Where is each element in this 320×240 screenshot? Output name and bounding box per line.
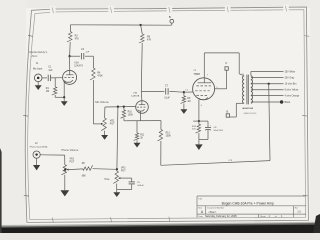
wires T1 secondary taps (251, 72, 284, 103)
title block text Title (198, 198, 203, 201)
resistor R9 (181, 96, 186, 104)
ground below R11 (134, 140, 141, 147)
wire 7868 cathode drop (198, 100, 200, 122)
ground below VR3 (113, 192, 120, 197)
wire R10 drop (123, 107, 125, 110)
svg-text:100K: 100K (128, 114, 134, 116)
wire grid to R1 (54, 78, 56, 87)
label 25V Gray (285, 76, 296, 79)
label V1A 12AX7A (74, 62, 83, 68)
wire R8 top to rail (141, 25, 143, 34)
svg-text:1.0: 1.0 (297, 209, 301, 213)
svg-text:R13: R13 (166, 133, 171, 135)
potentiometer VR1 (61, 165, 66, 175)
wire mix node to VR3 (116, 169, 118, 171)
svg-text:VR2: VR2 (110, 121, 115, 123)
label 8 ohm Yellow (285, 90, 299, 92)
label J2 (35, 142, 38, 145)
resistor R4 (90, 68, 95, 80)
svg-text:C: C (225, 61, 227, 65)
resistor R14 (196, 124, 201, 133)
label R9 1M (187, 98, 191, 103)
svg-text:VR3: VR3 (121, 167, 126, 169)
ground below 7868 cathode (195, 139, 203, 150)
capacitor C7 (166, 88, 168, 94)
ground below V1A cathode (61, 97, 68, 106)
drawing frame double border (25, 7, 308, 222)
svg-text:Attic: Attic (32, 54, 38, 58)
label R10 100K (128, 111, 134, 116)
label Mic Input (33, 68, 43, 71)
svg-text:47K: 47K (75, 38, 80, 41)
label 48-847-090 (242, 107, 253, 110)
label C7 .01uF (164, 85, 170, 100)
svg-text:<Doc>: <Doc> (208, 210, 217, 214)
label R13 100K (166, 133, 172, 138)
wire VR1 wiper to R6 (69, 168, 83, 171)
svg-text:.01uF: .01uF (164, 98, 170, 100)
wire R9 drop (183, 92, 185, 96)
junction dot 7868 grid node (183, 91, 185, 93)
ground below J1 (35, 82, 42, 90)
capacitor C5 (129, 182, 135, 184)
potentiometer VR2 (101, 118, 106, 131)
capacitor C1 (48, 75, 50, 81)
offpage connector B bottom (226, 114, 229, 117)
label R14 270 (192, 126, 197, 131)
wire V1B plate node to C7 (141, 90, 164, 92)
svg-text:V1B: V1B (133, 93, 138, 95)
pin label 1,2 (185, 90, 189, 92)
label J1 (36, 62, 39, 65)
junction dot grid bus to mix line (117, 106, 119, 108)
svg-text:50uF 50V: 50uF 50V (214, 130, 224, 132)
junction dot mix node (116, 168, 118, 170)
label T1 (241, 74, 244, 76)
svg-text:47K: 47K (147, 39, 152, 42)
transformer T1 (242, 75, 252, 105)
svg-text:2K: 2K (140, 137, 143, 139)
svg-text:B: B (226, 110, 228, 114)
ground below J2 (33, 158, 40, 170)
wire J1 to C1 (42, 77, 47, 79)
pentode V2 7868 (193, 78, 215, 100)
wire R2 to plate junction (69, 42, 72, 56)
svg-text:Mic Input: Mic Input (33, 68, 43, 71)
svg-text:4 ohm Orange: 4 ohm Orange (285, 95, 300, 98)
svg-text:Bogen CHB-10A Pre + Power Amp: Bogen CHB-10A Pre + Power Amp (222, 201, 274, 205)
svg-text:Saturday, February 12, 2005: Saturday, February 12, 2005 (205, 215, 237, 218)
label 68K (82, 175, 87, 177)
label Phono Input (RCA) (30, 145, 48, 148)
label C5 .005uF (137, 182, 144, 187)
svg-text:12AX7A: 12AX7A (74, 65, 83, 68)
junction dot 7868 cathode node (198, 120, 200, 122)
wire C2 to R4 branch (85, 55, 93, 57)
arrowhead VR3 wiper (118, 177, 120, 179)
wire VR3 bottom (116, 184, 118, 193)
pin label 7 (207, 75, 209, 77)
label Black (285, 102, 291, 104)
svg-text:Date:: Date: (198, 215, 203, 218)
power connector B (circle) (170, 19, 174, 25)
wire C8 branch (199, 121, 208, 139)
svg-text:Phono Input (RCA): Phono Input (RCA) (30, 145, 48, 148)
resistor R13 (158, 129, 163, 141)
label VR2 POT (110, 121, 115, 126)
wire cathode bus to R13 (160, 121, 162, 130)
svg-text:48-847-090: 48-847-090 (242, 107, 253, 110)
svg-text:1M: 1M (46, 90, 49, 93)
svg-text:12AX7A: 12AX7A (131, 95, 140, 98)
ground below VR2 (101, 135, 108, 140)
capacitor C2 (81, 53, 83, 59)
pin label 9 (216, 87, 218, 89)
label R11 2K (140, 134, 145, 139)
svg-text:100K: 100K (166, 136, 172, 138)
svg-text:16 ohm Brn: 16 ohm Brn (285, 83, 298, 86)
resistor R6 (83, 165, 93, 170)
wire V1B cathode bus (124, 120, 161, 122)
ground below VR1 (60, 190, 69, 196)
junction dot V1A plate node (68, 55, 70, 57)
svg-text:1M: 1M (187, 101, 190, 103)
offpage connector C (225, 67, 228, 70)
svg-text:POT: POT (121, 170, 126, 172)
triode V1A (63, 70, 77, 97)
wire 7868 plate to top (204, 53, 239, 78)
wire C1 to V1A grid (51, 77, 63, 79)
svg-text:Mic Volume: Mic Volume (95, 100, 109, 104)
svg-text:Phono Volume: Phono Volume (61, 148, 78, 152)
wire R10 to cathode bus (123, 118, 125, 121)
label R6 (82, 163, 86, 165)
wire T1 primary bottom to B (230, 103, 245, 117)
jack J1 mic input (34, 74, 42, 82)
label VR3 POT (121, 167, 126, 172)
wire R9 to ground (183, 104, 185, 110)
svg-text:25V Gray: 25V Gray (285, 76, 296, 79)
junction dot black tap (280, 100, 283, 103)
title block text Bogen CHB-10A Pre + Power Amp (222, 201, 274, 205)
svg-text:(4800-01-012): (4800-01-012) (244, 113, 257, 115)
svg-text:VR1: VR1 (70, 159, 75, 161)
svg-text:.1uF: .1uF (48, 69, 53, 72)
potentiometer VR3 (113, 171, 118, 183)
svg-text:.005uF: .005uF (137, 185, 144, 187)
wire down to T1 primary (239, 53, 243, 76)
wire C5 to VR3 bottom (117, 184, 132, 189)
junction dot V1A cathode node (63, 96, 65, 98)
svg-text:25V White: 25V White (285, 70, 296, 73)
label C (225, 61, 227, 65)
label 16 ohm Brn (285, 83, 298, 86)
wire R14 to ground join (198, 133, 200, 139)
handwritten note Radiodaddy's Attic (29, 50, 48, 58)
triode V1B (136, 101, 149, 121)
svg-text:POT: POT (110, 124, 115, 126)
label Phono Volume (61, 148, 78, 152)
label C2 .1uF (81, 48, 90, 54)
junction dot B+ rail to R8 (139, 24, 141, 26)
wire down to R4 (92, 56, 94, 68)
label 25V White (285, 70, 296, 73)
svg-text:R10: R10 (128, 111, 133, 113)
wire mixing vertical (117, 107, 118, 170)
label V2 7868 (193, 70, 200, 76)
title block text Document Number (207, 207, 224, 214)
wire rail to R2 (69, 25, 71, 32)
ground below R9 (180, 109, 187, 114)
wire B+ rail (70, 24, 171, 26)
wire plate junction to V1A plate (69, 56, 71, 70)
arrowhead VR2 wiper (101, 123, 103, 125)
resistor R11 (134, 133, 139, 140)
title block text Date (198, 215, 237, 218)
svg-text:Black: Black (285, 102, 291, 104)
label VR1 POT (70, 159, 75, 164)
label B bottom (226, 110, 228, 114)
title block text Rev (295, 208, 302, 214)
wire plate node to C2 (70, 55, 81, 57)
label C8 50uF 50V (214, 127, 224, 132)
wire mic grid bus (105, 106, 136, 109)
wire VR1 bottom (64, 175, 66, 190)
wire VR3 wiper to C5 (121, 178, 132, 182)
wire R4 to VR2 wiper (93, 80, 101, 124)
wire V1B plate up to R8 (140, 43, 143, 101)
label B (169, 15, 171, 19)
wire R11 drop (136, 121, 138, 133)
wire feedback horizontal (161, 161, 270, 166)
wire 7868 screen to C (215, 70, 227, 89)
label net 678 (228, 160, 232, 162)
wire cathode to R14 (198, 121, 200, 124)
svg-text:Rev: Rev (295, 208, 298, 210)
wire feedback vertical (269, 84, 270, 161)
resistor R8 (139, 34, 144, 43)
wire grid node to 7868 (184, 91, 193, 93)
label R8 47K (147, 35, 152, 41)
junction dot VR1 wiper (64, 169, 66, 171)
pin label 6 (201, 105, 203, 107)
svg-text:.1uF: .1uF (85, 52, 90, 54)
label R2 47K (75, 34, 80, 40)
svg-text:Sheet: Sheet (260, 215, 266, 218)
label Mic Volume (95, 100, 109, 104)
label Tone (104, 178, 110, 181)
wire VR2 top to grid wire (104, 107, 106, 118)
junction dot grid bus to R10 (123, 105, 125, 107)
jack J2 phono input (33, 151, 40, 158)
junction dot 16 ohm tap (268, 83, 270, 85)
wire R6 to mix node (93, 168, 117, 171)
svg-text:B: B (169, 15, 171, 19)
label C1 .1uF (48, 66, 53, 72)
wire C7 to grid node (169, 90, 184, 93)
resistor R2 (67, 32, 72, 43)
svg-text:8 ohm Yellow: 8 ohm Yellow (285, 90, 299, 92)
label 4 ohm Orange (285, 95, 300, 98)
svg-text:68K: 68K (82, 175, 87, 177)
title block text Sheet (260, 215, 283, 218)
resistor R10 (121, 110, 126, 118)
label 4800-01-012 (244, 113, 257, 115)
title block frame (197, 196, 306, 218)
svg-text:7868: 7868 (193, 72, 200, 76)
wire R1 bottom to cathode node (55, 95, 64, 97)
resistor R1 (52, 87, 57, 95)
label V1B 12AX7A (131, 93, 140, 98)
wire J2 to VR1 (40, 155, 65, 165)
title block text Size (198, 208, 204, 215)
svg-text:Tone: Tone (104, 178, 110, 181)
wire VR2 bottom to ground (104, 131, 106, 135)
wire R13 to feedback line (160, 141, 162, 165)
label R4 470K (97, 71, 103, 77)
capacitor C8 electrolytic (205, 125, 212, 130)
svg-text:POT: POT (70, 162, 75, 164)
wire cathode node stub left (193, 120, 199, 122)
arrowhead VR1 wiper (66, 169, 68, 171)
label R1 1M (46, 87, 50, 93)
svg-text:470K: 470K (97, 75, 103, 78)
